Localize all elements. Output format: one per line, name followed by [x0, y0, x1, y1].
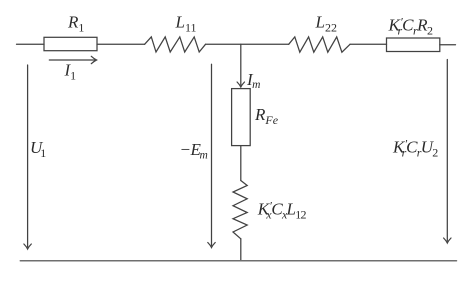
svg-text:L11: L11	[175, 13, 197, 35]
label L11 value	[175, 13, 197, 35]
wire between L22 and R2	[350, 43, 387, 45]
label RFe value	[254, 105, 279, 127]
wire bottom rail	[20, 260, 456, 262]
wire RFe to L12	[240, 146, 242, 181]
resistor R2	[387, 38, 440, 52]
label U1	[30, 138, 46, 160]
wire top-left segment	[17, 43, 45, 45]
wire L12 to bottom rail	[240, 239, 242, 261]
label L22 value	[315, 13, 337, 35]
label I1	[64, 61, 77, 83]
svg-text:Im: Im	[246, 70, 260, 91]
label K'xCxL12 value	[257, 199, 307, 222]
svg-text:L22: L22	[315, 13, 337, 35]
label R1 value	[67, 13, 84, 35]
svg-text:RFe: RFe	[254, 105, 279, 127]
svg-text:K′rCrR2: K′rCrR2	[388, 15, 434, 38]
wire node A to Rfe branch (Im arrow)	[237, 44, 244, 87]
label -Em	[180, 140, 208, 162]
svg-text:R1: R1	[67, 13, 84, 35]
voltage arrow -Em	[208, 64, 215, 247]
svg-text:K′rCrU2: K′rCrU2	[392, 137, 438, 160]
voltage arrow K'rCrU2	[444, 60, 451, 244]
svg-text:U1: U1	[30, 138, 46, 160]
resistor R1	[44, 37, 97, 50]
wire between R1 and L11	[97, 43, 145, 45]
resistor RFe	[232, 89, 251, 146]
inductor L12	[233, 181, 247, 239]
svg-text:−Em: −Em	[180, 140, 208, 162]
wire top-right stub after R2	[440, 44, 456, 46]
current arrow I1	[49, 56, 96, 63]
inductor L11	[145, 37, 206, 52]
wire between L11 and L22 (through node A)	[206, 43, 289, 45]
label K'rCrR2 value	[388, 15, 434, 38]
svg-text:I1: I1	[64, 61, 77, 83]
label K'rCrU2	[392, 137, 438, 160]
label Im	[246, 70, 260, 91]
voltage arrow U1	[24, 65, 31, 249]
inductor L22	[289, 37, 350, 52]
svg-text:K′xCxL12: K′xCxL12	[257, 199, 307, 222]
